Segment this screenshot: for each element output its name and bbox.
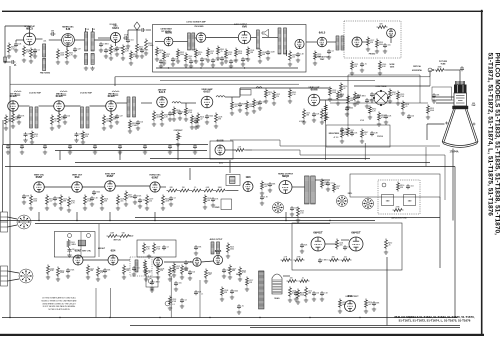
box phono input dashed [130,257,152,276]
resistor volume pot [136,43,139,54]
border right [481,10,483,336]
capacitor [340,127,344,132]
wire [38,212,40,221]
junction [154,220,155,221]
ground [102,126,106,130]
svg-text:1 MEG: 1 MEG [103,44,109,46]
svg-text:ON-OFF: ON-OFF [236,274,242,276]
resistor [347,127,350,137]
ground [245,287,249,291]
resistor [402,101,405,111]
ground [122,275,126,279]
resistor [130,51,133,61]
wire [12,111,14,114]
svg-text:.005: .005 [142,200,145,202]
peaking coil [172,102,181,103]
wire [94,39,110,41]
coil L2 lower [91,54,94,65]
resistor [57,267,60,278]
ground [50,126,54,130]
wire [419,75,421,103]
svg-text:1B3: 1B3 [246,175,251,179]
socket HV [363,198,374,209]
capacitor C6b [104,48,108,53]
svg-text:.001: .001 [410,186,413,188]
svg-text:USED WHERE CORRECTLY THE CIRCU: USED WHERE CORRECTLY THE CIRCUIT [42,303,75,305]
svg-text:6AL5: 6AL5 [215,249,222,253]
tube second detector [157,97,168,108]
ground [22,200,26,204]
svg-text:VOLUME: VOLUME [109,24,117,26]
resistor [235,48,238,58]
resistor [221,287,224,297]
ground [340,139,344,143]
ground [143,269,147,273]
border top [2,11,483,12]
ground [68,150,72,154]
capacitor [169,196,173,201]
capacitor [312,112,316,117]
ground [115,120,119,124]
ground [168,117,172,121]
transformer IF primary [30,107,33,128]
svg-text:LOW VOLT RECT: LOW VOLT RECT [345,296,358,298]
ground [320,120,324,124]
ground [336,101,340,105]
ground [86,275,90,279]
ground [302,120,306,124]
ground [220,297,224,301]
ground [327,55,331,59]
resistor [191,115,194,125]
ground [184,266,188,270]
resistor [157,265,160,276]
junction [244,67,245,68]
terminal strip 2 [1,266,8,286]
ground [234,58,238,62]
svg-text:1 MEG: 1 MEG [148,45,154,47]
resistor [101,195,104,206]
tube vertical oscillator [34,182,45,193]
capacitor [237,304,241,309]
ground [90,66,94,70]
wire [141,102,152,104]
ground [53,202,57,206]
svg-text:.25: .25 [194,187,196,189]
phase detector bridge [373,90,389,106]
wire [2,120,4,145]
ground [14,48,18,52]
junction [59,317,60,318]
coil L1 [85,32,88,51]
tube phase splitter [193,258,201,266]
resistor [397,182,400,192]
ground [184,117,188,121]
transformer audio out secondary [217,242,220,254]
svg-text:.25: .25 [364,134,366,136]
capacitor [159,59,163,64]
wire [8,279,20,281]
resistor [129,120,132,130]
capacitor [372,301,376,306]
capacitor [318,258,322,263]
ground [144,51,148,55]
svg-text:.02: .02 [343,88,345,90]
ground [45,206,49,210]
capacitor [407,114,411,119]
wire [16,39,24,41]
peaking coil 2 [216,96,225,97]
resistor [321,179,324,189]
wire vertical x200 [199,280,201,318]
ground [115,52,119,56]
wire [201,261,213,262]
capacitor [184,260,188,265]
CRT picture tube 17BP4 base pins [456,81,465,85]
wire step [230,140,440,146]
ground [224,59,228,63]
svg-text:.001: .001 [79,134,82,136]
wire [76,212,78,221]
wire [189,168,191,180]
junction [285,220,286,221]
capacitor [460,66,464,71]
capacitor [294,291,298,296]
ground [230,295,234,299]
resistor [361,129,364,139]
capacitor [327,49,331,54]
resistor [265,89,268,99]
wire bus band3 c [135,217,440,219]
wire [426,124,428,140]
svg-text:VERT LIN: VERT LIN [113,240,121,242]
svg-text:6AF4: 6AF4 [112,26,119,30]
svg-text:.0039: .0039 [110,232,114,234]
svg-text:.005: .005 [369,100,372,102]
resistor chain [215,189,227,192]
control circle B [87,234,91,238]
svg-text:17BP4A: 17BP4A [449,151,458,154]
resistor [385,239,388,250]
ground [372,307,376,311]
svg-text:.001: .001 [262,102,265,104]
wire left edge [2,145,4,213]
ground [200,62,204,66]
wire sound box B+ [156,67,298,69]
resistor [369,106,372,115]
capacitor [268,182,272,187]
wire [154,212,156,221]
ground [121,56,125,60]
ground [144,277,148,281]
svg-text:.005: .005 [339,244,342,246]
wire [115,185,150,187]
wire step 2 [252,150,445,200]
resistor [247,47,250,57]
resistor [324,104,327,113]
ground [67,208,71,212]
resistor [173,107,176,117]
svg-text:6CB6: 6CB6 [108,94,115,98]
capacitor [194,119,198,124]
resistor chain [167,189,179,192]
wire focus net mid [330,102,428,104]
capacitor [189,59,193,64]
svg-text:5600: 5600 [230,248,234,250]
ground [203,205,207,209]
svg-text:.02: .02 [184,300,186,302]
wire [227,190,239,192]
capacitor [200,57,204,62]
svg-text:.01: .01 [405,106,407,108]
wire [118,259,130,261]
capacitor [174,281,178,286]
capacitor [383,43,387,48]
ground [196,124,200,128]
capacitor C8 [123,36,128,40]
transformer IF secondary 3 [133,97,136,117]
resistor [51,115,54,126]
svg-text:5600: 5600 [180,54,184,56]
CRT neck electrodes [454,93,467,106]
resistor [156,47,159,57]
resistor [321,109,324,120]
wire bottom bus 2 [130,325,460,327]
wire [109,212,111,221]
wire long bus 2 [5,166,455,168]
ground [22,58,26,62]
junction [259,317,260,318]
transformer IF secondary [86,107,89,128]
wire [347,75,349,126]
junction [109,220,110,221]
transformer IF primary 3 [127,97,130,117]
resistor [103,115,106,126]
svg-text:6AG7: 6AG7 [203,90,211,94]
svg-text:6SN7: 6SN7 [107,174,114,178]
wire plate V2 [74,39,84,41]
coil RF interstage lower [43,59,46,71]
tube V9 [352,37,362,47]
ground [383,49,387,53]
capacitor C2 [33,48,37,53]
svg-text:FINE TUNING: FINE TUNING [40,73,51,75]
resistor [177,49,180,59]
resistor [31,131,34,141]
resistor [273,91,276,101]
svg-text:120: 120 [140,122,143,124]
CRT anode marks [445,122,476,126]
wire [185,103,187,107]
socket yoke plug [17,215,31,229]
ground [272,101,276,105]
svg-text:5600: 5600 [349,108,353,110]
tube V7 detector [295,39,304,48]
fuse F1 [4,57,7,62]
capacitor [350,131,354,136]
tube sync separator [105,181,116,192]
transformer T2 secondary [284,28,287,54]
wire [44,186,71,188]
ground [228,275,232,279]
wire bottom bus 3 [250,327,460,329]
wire [429,70,431,77]
resistor power [297,289,300,300]
wire [8,271,20,273]
resistor [235,149,246,152]
resistor [162,195,165,206]
capacitor [53,196,57,201]
resistor [68,197,71,208]
junction [209,317,210,318]
svg-text:.25: .25 [241,306,243,308]
resistor [299,280,310,283]
wire vertical x99 [98,224,100,257]
phono jack [146,277,158,287]
wire [29,26,31,33]
capacitor bypass [43,144,47,149]
svg-text:PHONO: PHONO [369,54,376,56]
junction [359,317,360,318]
svg-text:5600: 5600 [379,44,383,46]
resistor [185,53,188,63]
ground [168,306,172,310]
capacitor [17,114,21,119]
tube V3 oscillator [111,33,121,43]
svg-text:6AL5: 6AL5 [319,31,326,35]
svg-text:.01: .01 [148,272,150,274]
svg-text:DOTTED IN PARTS ARE NOT USED I: DOTTED IN PARTS ARE NOT USED IN ALL [42,297,76,300]
junction [168,67,169,68]
resistor yoke [393,209,404,212]
capacitor [205,114,209,119]
wire CRT grid [432,96,454,98]
svg-text:1 MEG: 1 MEG [154,282,160,284]
ground [377,122,381,126]
capacitor [194,245,198,250]
capacitor C7 [115,46,119,51]
capacitor [258,100,262,105]
resistor [173,263,176,273]
ground [171,62,175,66]
wire long bus [75,162,430,164]
box power supply [292,223,402,270]
box width coil [221,199,232,210]
resistor [253,99,256,109]
resistor power [289,287,292,298]
svg-text:.02: .02 [200,118,202,120]
svg-text:220: 220 [276,96,279,98]
resistor [5,115,8,126]
tube V5 sound det [196,33,206,43]
ground [56,277,60,281]
wire [173,41,188,43]
ground [104,54,108,58]
wire B+ bus [3,144,208,146]
junction [432,69,434,71]
capacitor [300,243,304,248]
coil vert block [78,240,85,246]
tube V2 inner circle [63,35,72,44]
ground [345,112,349,116]
wire [306,41,317,43]
wire [85,28,87,32]
ground [366,47,370,51]
ground [288,99,292,103]
ground [288,298,292,302]
resistor [329,87,332,97]
capacitor [66,268,70,273]
resistor [287,280,298,283]
ground [178,116,182,120]
resistor [303,109,306,120]
wire [119,151,121,161]
capacitor [75,132,79,137]
ground [73,54,77,58]
capacitor [133,194,137,199]
coil phono [135,260,138,272]
ground [294,297,298,301]
wire [292,186,305,188]
tube AGC keyer [215,145,225,155]
wire [82,186,104,188]
svg-text:.005: .005 [387,45,390,47]
wire CRT ground return [452,149,454,221]
resistor [378,112,381,122]
ground [180,275,184,279]
resistor [58,113,61,124]
wire focus net top [348,74,420,76]
capacitor [138,198,142,203]
resistor R2 [8,43,11,54]
ground [161,206,165,210]
resistor R5 [110,45,113,56]
wire [146,29,151,31]
junction [409,317,410,318]
resistor [181,265,184,276]
ground [346,105,350,109]
ground [180,304,184,308]
svg-text:L CONT: L CONT [299,121,305,123]
coil L1 lower [85,54,88,65]
resistor [427,105,430,115]
resistor [397,91,400,101]
wire [246,149,253,151]
svg-text:220: 220 [411,116,414,118]
resistor [341,129,344,139]
resistor [225,49,228,59]
svg-text:5U4G: 5U4G [274,297,280,300]
svg-text:IS NOT SHOWN. SEE PAGE IN GEN: IS NOT SHOWN. SEE PAGE IN GENERAL [43,305,76,308]
svg-text:5600: 5600 [96,192,100,194]
ground [109,56,113,60]
transformer flyback winding [305,176,310,204]
ground [135,54,139,58]
resistor [163,51,166,61]
ground [174,287,178,291]
resistor [239,267,242,278]
svg-text:6SN7: 6SN7 [152,175,159,179]
control circle A [68,234,72,238]
ground [84,66,88,70]
speaker [262,29,269,37]
resistor R3 [57,49,60,60]
coil interstage 1b [192,33,195,50]
wire bus band3 b [35,223,330,225]
ground [312,118,316,122]
ground [296,300,300,304]
ground [356,100,360,104]
